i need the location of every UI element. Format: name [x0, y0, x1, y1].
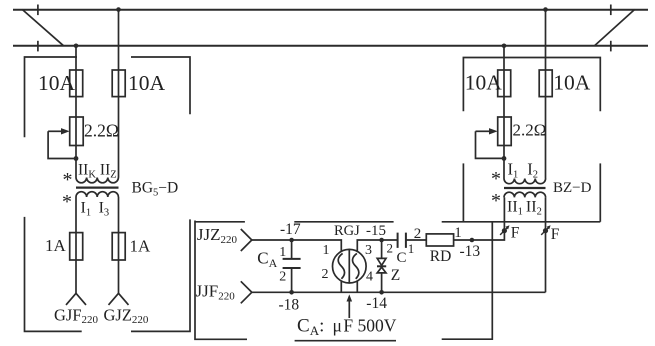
node rail2 left: [74, 44, 79, 49]
svg-text:2: 2: [279, 270, 286, 285]
svg-text:F: F: [511, 224, 520, 241]
transformer BZ-D primary winding I1 I2: [504, 179, 546, 184]
node -14: [379, 290, 384, 295]
svg-text:-18: -18: [279, 297, 300, 314]
svg-text:I1I2: I1I2: [508, 160, 539, 181]
node -13: [470, 238, 475, 243]
fuse 10A left#2: [112, 70, 125, 97]
connector chevron JJF220: [241, 281, 252, 303]
svg-text:CA: CA: [257, 249, 277, 271]
svg-text:-17: -17: [280, 221, 301, 238]
rail 1 (top): [13, 9, 648, 11]
protector F left arrow: [500, 228, 507, 235]
svg-text:GJF220: GJF220: [54, 306, 99, 327]
relay RGJ left element: [338, 253, 344, 278]
rheostat 2.2ohm left body: [70, 117, 84, 146]
svg-text:2.2Ω: 2.2Ω: [84, 121, 119, 141]
svg-text:Z: Z: [391, 267, 400, 284]
svg-text:1: 1: [323, 243, 330, 258]
connector chevron JJZ220: [241, 229, 252, 251]
svg-text:*: *: [491, 190, 501, 212]
svg-text:*: *: [63, 169, 73, 191]
capacitor C plates: [398, 233, 406, 248]
rail 2 (bottom): [13, 45, 648, 47]
wire rail2 to BZ-D primary left: [503, 46, 505, 179]
rheostat right wiper return wire: [476, 131, 505, 158]
wire rail2 to BG5-D primary left: [75, 46, 77, 178]
svg-text:1: 1: [454, 225, 462, 241]
wire relay pin4 down: [356, 281, 358, 293]
svg-text:BG5−D: BG5−D: [132, 180, 179, 199]
wire C to RD to F-left: [406, 197, 505, 240]
relay RGJ circle: [333, 249, 367, 283]
transformer BZ-D core: [504, 187, 546, 189]
joint tick right rail2: [610, 41, 612, 52]
svg-text:3: 3: [365, 243, 372, 258]
transformer BG5-D core: [76, 187, 119, 189]
capacitor CA plates: [283, 259, 301, 268]
svg-text:1A: 1A: [45, 236, 67, 255]
svg-text:C: C: [397, 250, 407, 266]
node wiper-left: [74, 156, 79, 161]
svg-text:2: 2: [414, 226, 422, 242]
svg-text:II1II2: II1II2: [507, 199, 542, 218]
joint tick left rail1: [37, 5, 39, 16]
wire relay pin2 down: [340, 281, 342, 292]
node wiper-right: [502, 156, 507, 161]
svg-text:-13: -13: [460, 243, 481, 260]
wire rail1 to BG5-D primary right: [118, 10, 120, 178]
protector F right node: [543, 228, 548, 233]
svg-text:JJZ220: JJZ220: [197, 225, 238, 246]
fuse 10A left#1: [70, 70, 83, 97]
rheostat 2.2ohm right body: [498, 117, 512, 146]
svg-text:I1I3: I1I3: [81, 200, 110, 219]
fuse 10A right#1: [498, 70, 511, 97]
relay RGJ right element: [353, 253, 359, 278]
right box outline: [463, 58, 600, 112]
middle box outline: [195, 221, 247, 340]
fuse 1A right: [112, 233, 125, 260]
fuse 1A left: [70, 233, 83, 260]
node -15: [379, 238, 384, 243]
zener Z bottom diode: [377, 267, 386, 273]
note underline: [295, 340, 396, 342]
zener Z bar: [377, 265, 386, 267]
node -17: [289, 238, 294, 243]
wire rail1 to BZ-D primary right: [545, 10, 547, 179]
svg-text:-14: -14: [366, 295, 387, 312]
svg-text:1A: 1A: [130, 237, 152, 256]
zener Z branch wires: [381, 240, 383, 292]
svg-text:2: 2: [322, 267, 329, 282]
protector F right arrow: [541, 228, 548, 235]
node rail1 left: [116, 7, 121, 12]
svg-text:4: 4: [366, 270, 373, 285]
relay RGJ divider: [348, 249, 350, 283]
svg-text:RD: RD: [430, 248, 452, 265]
transformer BZ-D secondary winding II1 II2: [504, 192, 546, 197]
svg-text:BZ−D: BZ−D: [553, 180, 592, 196]
wire secondary right to fuse 1A: [118, 197, 120, 293]
svg-text:-15: -15: [366, 223, 386, 239]
wire JJZ220 to relay pin1: [252, 240, 341, 252]
protector F left node: [502, 228, 507, 233]
svg-text:10A: 10A: [128, 71, 166, 95]
svg-text:1: 1: [279, 245, 286, 260]
fuse RD body: [426, 234, 453, 246]
node rail2 right: [502, 44, 507, 49]
svg-text:F: F: [551, 226, 560, 243]
svg-text:*: *: [491, 168, 501, 190]
svg-text:10A: 10A: [465, 71, 503, 95]
fork GJZ: [109, 293, 129, 305]
wire secondary left to fuse 1A: [75, 197, 77, 293]
zener Z top diode: [377, 258, 386, 265]
svg-text:JJF220: JJF220: [196, 282, 236, 303]
transformer BG5-D primary winding IIK IIZ: [76, 178, 118, 183]
svg-text:1: 1: [408, 241, 415, 256]
svg-text:*: *: [62, 191, 72, 213]
rheostat left wiper arrow: [48, 130, 62, 132]
joint tick right rail1: [610, 5, 612, 16]
svg-text:CA:μ F 500V: CA:μ F 500V: [297, 316, 397, 339]
svg-text:10A: 10A: [553, 71, 591, 95]
capacitor CA leg: [291, 240, 293, 292]
fork GJF: [66, 293, 86, 305]
rheostat left wiper return wire: [48, 131, 76, 158]
svg-text:10A: 10A: [38, 71, 76, 95]
fuse 10A right#2: [539, 70, 552, 97]
node rail1 right: [543, 7, 548, 12]
wire relay pin3 to -15: [357, 240, 397, 252]
wire bottom JJF220 common: [252, 291, 546, 293]
svg-text:GJZ220: GJZ220: [104, 306, 149, 327]
svg-text:2.2Ω: 2.2Ω: [513, 121, 547, 140]
insulated joint jumper left: [22, 10, 63, 46]
rheostat right wiper arrow: [476, 130, 491, 132]
note arrow to relay: [348, 300, 350, 318]
node -18: [289, 290, 294, 295]
wire BZ secondary right down: [545, 197, 547, 292]
insulated joint jumper right: [595, 10, 635, 46]
joint tick left rail2: [37, 41, 39, 52]
svg-text:2: 2: [387, 241, 394, 256]
svg-text:RGJ: RGJ: [334, 223, 360, 239]
left box outline: [25, 57, 78, 137]
transformer BG5-D secondary winding I1 I3: [76, 192, 118, 197]
